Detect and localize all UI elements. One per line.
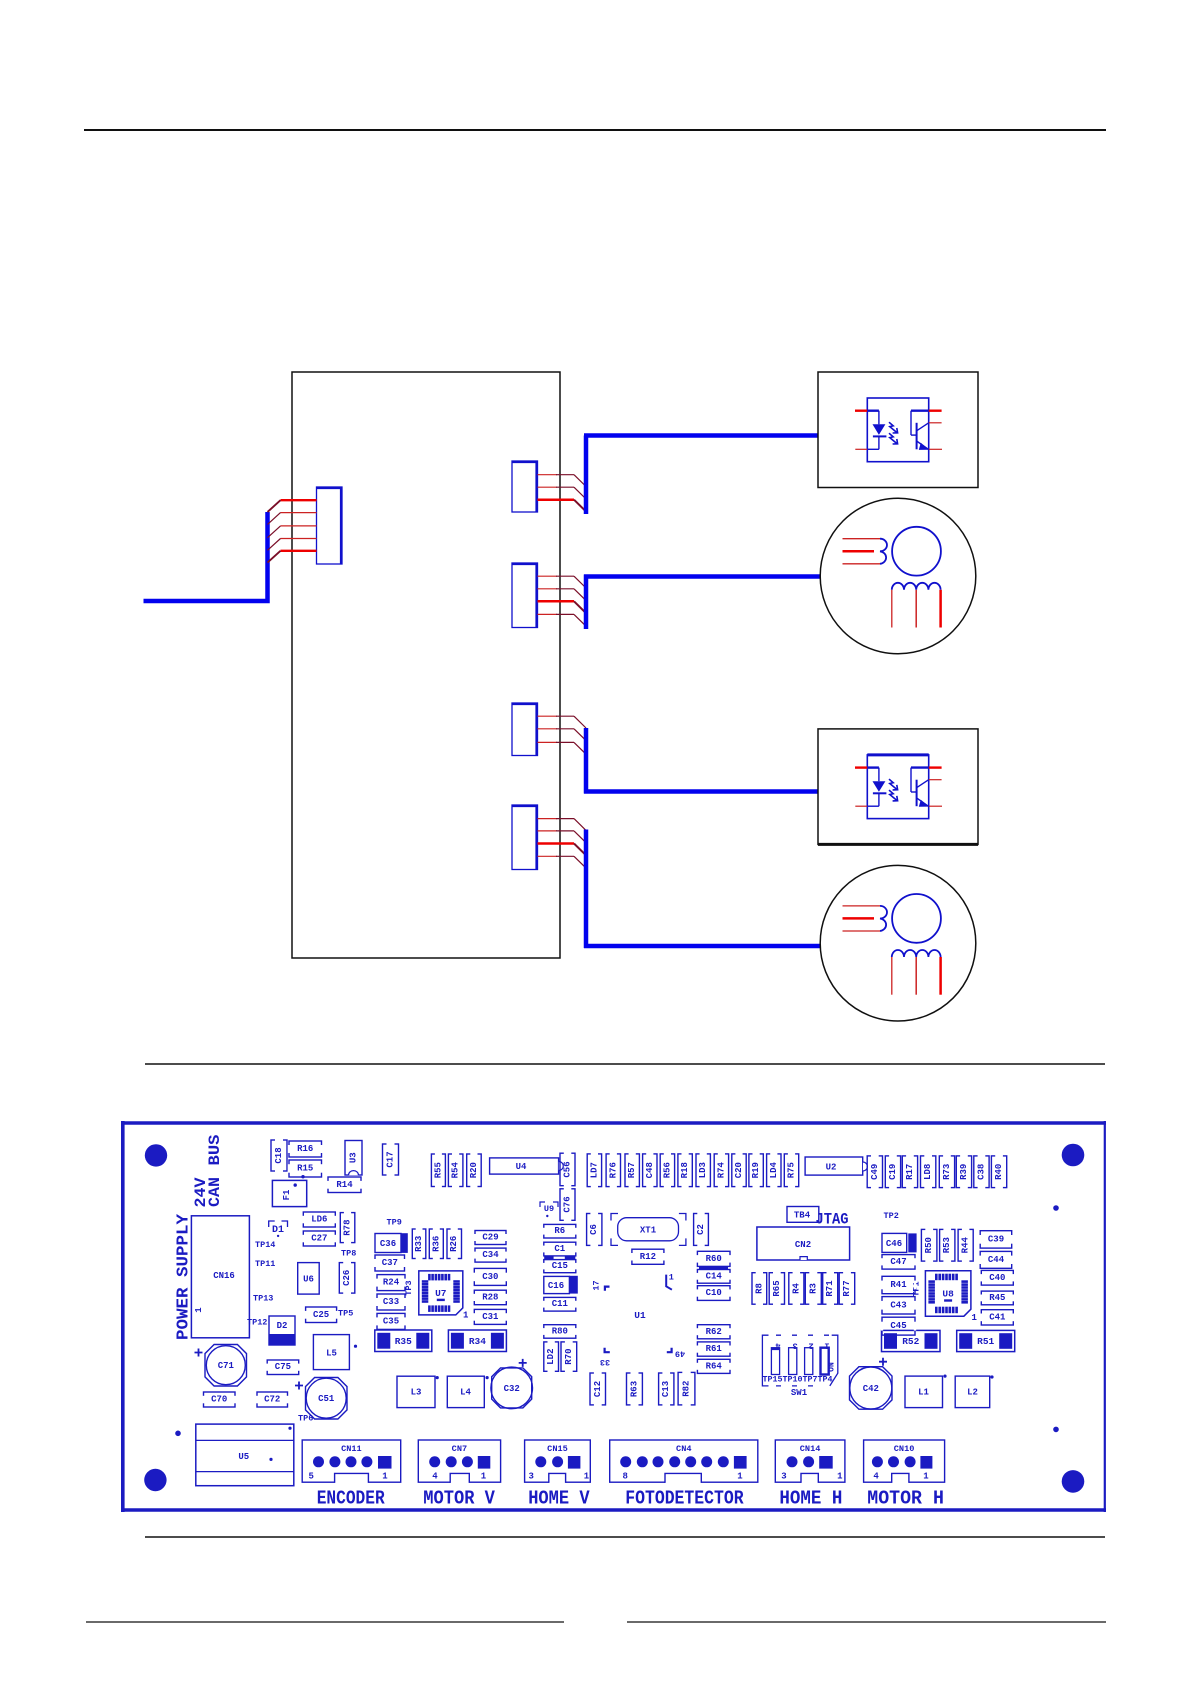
capacitor C27	[302, 1231, 336, 1246]
connector CN16	[191, 1216, 249, 1338]
wire input pin 4	[281, 538, 317, 540]
svg-text:C42: C42	[863, 1384, 879, 1394]
diode D1	[269, 1221, 288, 1237]
svg-text:R4: R4	[791, 1283, 801, 1294]
svg-text:C12: C12	[593, 1381, 603, 1397]
svg-text:LD2: LD2	[546, 1348, 556, 1364]
resistor R50	[921, 1228, 937, 1262]
figure separator rule below PCB	[145, 1536, 1105, 1538]
svg-text:C34: C34	[482, 1250, 499, 1260]
stepper motor M1 phase lead 1	[843, 538, 881, 540]
svg-text:L4: L4	[460, 1388, 471, 1398]
resistor R15	[288, 1160, 323, 1177]
svg-text:R39: R39	[959, 1164, 969, 1180]
svg-text:R20: R20	[469, 1162, 479, 1178]
svg-text:1: 1	[382, 1472, 388, 1482]
svg-text:C10: C10	[706, 1288, 722, 1298]
svg-text:R78: R78	[343, 1219, 353, 1235]
svg-text:C44: C44	[988, 1255, 1005, 1265]
wire K1 slant 1	[574, 475, 586, 487]
resistor R39	[956, 1155, 971, 1189]
capacitor C33	[376, 1294, 406, 1310]
svg-text:CN15: CN15	[547, 1444, 568, 1454]
svg-text:C16: C16	[548, 1281, 564, 1291]
svg-text:R34: R34	[469, 1336, 486, 1347]
svg-text:R24: R24	[383, 1278, 400, 1288]
svg-text:3: 3	[793, 1341, 798, 1351]
led LD2	[544, 1341, 559, 1373]
resistor R35	[375, 1330, 432, 1352]
svg-text:R65: R65	[772, 1280, 782, 1296]
capacitor C1	[543, 1242, 577, 1256]
svg-text:C19: C19	[888, 1164, 898, 1180]
footer rule right	[627, 1621, 1106, 1623]
stepper motor M1 winding lead 3	[939, 590, 942, 628]
stepper motor M2 lower winding	[892, 950, 941, 957]
stepper motor M2 phase lead 2	[843, 917, 875, 920]
svg-text:C37: C37	[382, 1258, 398, 1268]
capacitor C14	[696, 1270, 731, 1284]
wire K2 pin 1	[538, 575, 558, 577]
resistor R76	[606, 1153, 620, 1188]
resistor R33	[412, 1228, 426, 1260]
capacitor C42	[850, 1358, 893, 1410]
wire K3 pin 2	[538, 728, 558, 730]
svg-text:R44: R44	[961, 1236, 971, 1253]
svg-text:R55: R55	[433, 1162, 443, 1178]
capacitor C46	[882, 1233, 917, 1252]
optocoupler U1 cathode pin	[855, 448, 867, 450]
svg-text:C32: C32	[504, 1384, 520, 1394]
optocoupler U1 light arrows	[889, 422, 897, 433]
svg-text:R15: R15	[297, 1164, 313, 1174]
capacitor C71	[195, 1345, 247, 1387]
wire to motor H	[584, 944, 821, 949]
svg-text:L2: L2	[967, 1388, 978, 1398]
wire K3 slant 1	[574, 716, 586, 728]
stepper motor M2 winding lead 1	[891, 957, 893, 995]
svg-text:MOTOR V: MOTOR V	[423, 1488, 495, 1510]
svg-text:C51: C51	[318, 1394, 335, 1404]
stepper motor M2 phase lead 3	[843, 930, 881, 932]
controller board outline	[292, 372, 560, 958]
wire K1 slant 3	[574, 500, 586, 512]
svg-text:R53: R53	[942, 1237, 952, 1253]
wire K1 pin 2	[538, 486, 558, 488]
svg-text:4: 4	[432, 1472, 438, 1482]
capacitor C39	[979, 1231, 1013, 1248]
svg-text:R18: R18	[680, 1162, 690, 1178]
svg-text:C31: C31	[482, 1312, 499, 1322]
svg-text:R63: R63	[630, 1381, 640, 1397]
connector CN4	[610, 1440, 758, 1484]
wire to optocoupler 1	[584, 433, 818, 438]
capacitor C25	[304, 1307, 337, 1323]
svg-text:MOTOR H: MOTOR H	[867, 1488, 944, 1510]
wire input slant 4	[268, 539, 281, 551]
footer rule left	[86, 1621, 564, 1623]
svg-text:R52: R52	[902, 1336, 919, 1347]
stepper motor M1 winding lead 2	[915, 590, 917, 628]
svg-text:R54: R54	[451, 1161, 461, 1178]
wire K1 pin 3	[538, 498, 575, 501]
capacitor C2	[694, 1212, 709, 1246]
svg-text:TP5: TP5	[338, 1309, 353, 1319]
capacitor C35	[376, 1313, 406, 1329]
inductor L5	[313, 1335, 357, 1370]
svg-text:TP3: TP3	[404, 1280, 414, 1295]
mounting hole bottom-right	[1062, 1470, 1085, 1493]
resistor R74	[714, 1153, 728, 1188]
svg-text:49: 49	[675, 1349, 685, 1359]
svg-text:TP14: TP14	[255, 1240, 275, 1250]
capacitor C30	[473, 1268, 507, 1285]
svg-text:C6: C6	[589, 1224, 599, 1235]
svg-text:R16: R16	[297, 1144, 313, 1154]
header rule	[84, 129, 1106, 131]
svg-text:C27: C27	[311, 1234, 327, 1244]
svg-text:3: 3	[781, 1472, 786, 1482]
wire K2 pin 2	[538, 588, 558, 590]
optocoupler U2 LED	[867, 766, 879, 768]
svg-text:C26: C26	[342, 1270, 352, 1286]
resistor R36	[429, 1228, 443, 1260]
bus bar K2	[584, 575, 589, 630]
led LD3	[696, 1153, 710, 1188]
resistor R77	[839, 1272, 855, 1306]
inductor L1	[905, 1375, 947, 1408]
svg-text:CN2: CN2	[795, 1240, 811, 1250]
svg-text:TP11: TP11	[255, 1259, 275, 1269]
stepper motor M2 phase lead 1	[843, 905, 881, 907]
resistor R18	[678, 1153, 692, 1188]
svg-text:R26: R26	[449, 1236, 459, 1252]
svg-text:F1: F1	[282, 1189, 292, 1200]
resistor R71	[823, 1272, 838, 1306]
solder jumper pads C1-C15	[544, 1256, 553, 1259]
svg-text:C48: C48	[645, 1162, 655, 1178]
connector K4	[512, 805, 538, 870]
svg-text:CN10: CN10	[894, 1444, 915, 1454]
svg-text:R56: R56	[662, 1162, 672, 1178]
led LD7	[587, 1153, 601, 1188]
resistor R19	[749, 1153, 763, 1188]
inductor L3	[397, 1376, 439, 1408]
svg-text:POWER SUPPLY: POWER SUPPLY	[174, 1214, 193, 1340]
wire K2 slant 1	[574, 576, 586, 588]
resistor R26	[447, 1228, 462, 1260]
resistor R20	[467, 1153, 482, 1188]
optocoupler U2 anode pin	[855, 766, 867, 768]
stepper motor M2 rotor	[892, 894, 941, 943]
resistor R16	[288, 1141, 323, 1157]
optocoupler U1 base pin	[929, 410, 942, 412]
svg-text:U7: U7	[435, 1288, 447, 1299]
svg-text:R12: R12	[640, 1252, 656, 1262]
svg-text:D1: D1	[272, 1225, 284, 1236]
resistor R44	[958, 1228, 973, 1262]
svg-text:R6: R6	[554, 1226, 565, 1236]
svg-text:C72: C72	[264, 1395, 280, 1405]
svg-text:C20: C20	[734, 1162, 744, 1178]
crystal XT1	[611, 1214, 686, 1246]
svg-text:U9: U9	[544, 1204, 554, 1214]
resistor R24	[376, 1275, 406, 1291]
resistor R17	[902, 1155, 917, 1189]
svg-text:U1: U1	[634, 1310, 646, 1321]
svg-text:LD6: LD6	[311, 1215, 327, 1225]
svg-text:C56: C56	[563, 1161, 573, 1177]
capacitor C75	[266, 1360, 300, 1375]
svg-text:TP8: TP8	[341, 1249, 356, 1259]
resistor R14	[327, 1177, 362, 1193]
optocoupler U1 anode pin	[855, 410, 867, 412]
IC U9	[540, 1202, 558, 1217]
wire K2 pin 4	[538, 613, 558, 615]
svg-text:CN14: CN14	[800, 1444, 821, 1454]
svg-text:R77: R77	[842, 1280, 852, 1296]
led LD8	[921, 1155, 936, 1189]
svg-text:L5: L5	[326, 1349, 337, 1359]
resistor R4	[789, 1272, 804, 1306]
svg-text:R76: R76	[608, 1162, 618, 1178]
bus bar K1	[584, 436, 589, 515]
microcontroller U1	[592, 1273, 686, 1367]
capacitor C31	[473, 1309, 507, 1324]
IC U8	[912, 1271, 978, 1323]
wire input pin 3	[281, 525, 317, 527]
svg-text:R64: R64	[706, 1361, 723, 1371]
svg-text:R73: R73	[942, 1164, 952, 1180]
resistor R28	[473, 1290, 507, 1305]
svg-text:R74: R74	[716, 1161, 726, 1178]
led LD4	[767, 1153, 781, 1188]
resistor R34	[448, 1330, 506, 1352]
capacitor C51	[295, 1378, 347, 1420]
IC U3	[345, 1141, 362, 1176]
wire K2 pin 3	[538, 600, 575, 603]
capacitor C76	[560, 1188, 575, 1222]
svg-text:C15: C15	[552, 1261, 568, 1271]
diode D2	[269, 1316, 295, 1345]
wire input pin 2	[281, 512, 317, 514]
svg-text:C39: C39	[988, 1234, 1004, 1244]
resistor R52	[882, 1330, 941, 1351]
svg-text:C25: C25	[313, 1310, 329, 1320]
resistor R78	[340, 1211, 355, 1243]
stepper motor M1 rotor	[892, 527, 941, 576]
svg-text:TP6: TP6	[298, 1414, 313, 1424]
capacitor C15	[543, 1260, 577, 1273]
wire K2 slant 3	[574, 601, 586, 613]
wire input slant 3	[268, 526, 281, 538]
fiducial dot right lower	[1053, 1427, 1059, 1433]
fuse F1	[272, 1175, 306, 1207]
svg-text:U8: U8	[942, 1289, 954, 1300]
svg-text:R40: R40	[994, 1164, 1004, 1180]
svg-text:C49: C49	[870, 1164, 880, 1180]
connector CN15	[525, 1440, 591, 1484]
svg-text:C71: C71	[218, 1361, 235, 1371]
svg-text:1: 1	[463, 1311, 469, 1321]
svg-text:TP2: TP2	[884, 1211, 899, 1221]
capacitor C40	[980, 1270, 1014, 1285]
stepper motor M1 winding lead 1	[891, 590, 893, 628]
resistor R12	[631, 1249, 665, 1264]
optocoupler U1 collector pin	[929, 422, 942, 424]
svg-text:LD7: LD7	[589, 1162, 599, 1178]
inductor L2	[955, 1375, 993, 1407]
resistor R55	[431, 1153, 445, 1188]
svg-text:LD4: LD4	[769, 1161, 779, 1178]
capacitor C48	[643, 1153, 657, 1188]
svg-text:3: 3	[529, 1472, 534, 1482]
svg-text:U6: U6	[303, 1275, 314, 1285]
svg-text:1: 1	[669, 1273, 674, 1283]
svg-text:R28: R28	[482, 1293, 498, 1303]
capacitor C70	[202, 1392, 236, 1407]
svg-text:C33: C33	[383, 1297, 399, 1307]
svg-text:TP9: TP9	[387, 1218, 402, 1228]
capacitor C36	[375, 1233, 408, 1253]
optocoupler U2 emitter pin	[929, 805, 942, 807]
svg-text:R60: R60	[706, 1254, 722, 1264]
resistor R51	[957, 1330, 1015, 1351]
optocoupler U1 phototransistor	[911, 410, 929, 412]
svg-text:R57: R57	[627, 1162, 637, 1178]
connector CN10	[864, 1440, 945, 1484]
svg-text:R61: R61	[706, 1344, 723, 1354]
resistor R3	[805, 1272, 821, 1306]
wire input pin 5	[281, 550, 317, 552]
IC U4	[490, 1158, 564, 1174]
svg-text:8: 8	[623, 1472, 628, 1482]
resistor R61	[696, 1342, 731, 1356]
stepper motor M1 lower winding	[892, 583, 941, 590]
svg-text:R19: R19	[751, 1162, 761, 1178]
svg-text:CN16: CN16	[213, 1271, 235, 1281]
capacitor C45	[881, 1317, 916, 1335]
svg-text:C36: C36	[380, 1239, 396, 1249]
svg-text:R80: R80	[552, 1327, 568, 1337]
capacitor C34	[474, 1248, 507, 1262]
svg-text:C40: C40	[989, 1273, 1005, 1283]
optocoupler U1 box	[818, 372, 978, 488]
svg-text:17: 17	[592, 1280, 602, 1290]
wire K1 slant 2	[574, 487, 586, 499]
bus bar K4	[584, 830, 589, 949]
svg-text:FOTODETECTOR: FOTODETECTOR	[625, 1488, 744, 1510]
svg-text:C47: C47	[890, 1257, 906, 1267]
svg-text:R17: R17	[905, 1164, 915, 1180]
svg-text:C17: C17	[386, 1151, 396, 1167]
stepper motor M2 winding lead 2	[915, 957, 917, 995]
stepper motor M2 winding lead 3	[939, 957, 942, 995]
svg-text:CN4: CN4	[676, 1444, 691, 1454]
capacitor C18	[271, 1139, 287, 1172]
capacitor C49	[867, 1155, 882, 1189]
stepper motor M2 body	[820, 865, 976, 1021]
resistor R73	[939, 1155, 954, 1189]
svg-text:1: 1	[584, 1472, 590, 1482]
figure separator rule above PCB	[145, 1063, 1105, 1065]
capacitor C17	[383, 1143, 399, 1176]
svg-text:C11: C11	[552, 1299, 569, 1309]
stepper motor M1 phase lead 2	[843, 550, 875, 553]
stepper motor M1 body	[820, 498, 976, 654]
wire 24V input	[144, 512, 268, 601]
connector CN2	[757, 1227, 850, 1260]
svg-text:C38: C38	[976, 1164, 986, 1180]
capacitor C10	[696, 1286, 731, 1301]
stepper motor M1 phase lead 3	[843, 563, 881, 565]
resistor R53	[940, 1228, 955, 1262]
svg-text:R51: R51	[977, 1336, 994, 1347]
svg-text:L1: L1	[918, 1388, 929, 1398]
svg-text:TB4: TB4	[794, 1211, 811, 1221]
optocoupler U2 body	[867, 755, 928, 819]
capacitor C13	[659, 1372, 674, 1406]
connector CN7	[418, 1440, 500, 1484]
svg-text:1: 1	[194, 1307, 204, 1313]
svg-text:XT1: XT1	[640, 1226, 657, 1236]
wire K3 slant 2	[574, 729, 586, 741]
capacitor C38	[974, 1155, 989, 1189]
svg-text:BUS: BUS	[206, 1135, 224, 1166]
svg-text:HOME H: HOME H	[779, 1488, 842, 1510]
solder jumper pad R60-C14	[699, 1267, 728, 1270]
capacitor C19	[885, 1155, 900, 1189]
svg-text:1: 1	[923, 1472, 929, 1482]
capacitor C56	[560, 1152, 575, 1187]
capacitor C43	[881, 1297, 916, 1314]
dip switch SW1	[762, 1335, 837, 1398]
svg-text:C13: C13	[661, 1381, 671, 1397]
svg-text:C76: C76	[563, 1196, 573, 1212]
resistor R70	[561, 1341, 577, 1373]
stepper motor M2 phase winding	[880, 906, 887, 931]
svg-text:LD3: LD3	[698, 1162, 708, 1178]
svg-text:C35: C35	[383, 1316, 399, 1326]
svg-text:R14: R14	[336, 1180, 353, 1190]
svg-text:U2: U2	[826, 1163, 837, 1173]
svg-text:CAN: CAN	[206, 1177, 224, 1207]
IC U6	[298, 1263, 320, 1295]
svg-text:L3: L3	[411, 1388, 422, 1398]
bus bar K3	[584, 728, 589, 794]
connector CN14	[775, 1440, 845, 1484]
resistor R62	[696, 1325, 731, 1339]
svg-text:HOME V: HOME V	[528, 1488, 590, 1510]
resistor R41	[881, 1276, 916, 1293]
svg-text:SW1: SW1	[791, 1388, 808, 1398]
svg-text:C43: C43	[890, 1300, 906, 1310]
resistor R63	[627, 1372, 643, 1406]
svg-text:LD8: LD8	[923, 1164, 933, 1180]
svg-text:TP12: TP12	[247, 1318, 267, 1328]
wire input slant 2	[268, 513, 281, 525]
svg-text:2: 2	[809, 1341, 814, 1351]
led LD6	[302, 1212, 336, 1227]
mounting hole top-left	[145, 1144, 167, 1166]
svg-text:R82: R82	[682, 1381, 692, 1397]
optocoupler U2 base pin	[929, 766, 942, 768]
svg-text:U3: U3	[349, 1152, 359, 1163]
jumper TB4	[787, 1207, 819, 1223]
svg-text:R62: R62	[706, 1327, 722, 1337]
svg-text:R75: R75	[787, 1162, 797, 1178]
wire K4 slant 3	[574, 844, 586, 856]
